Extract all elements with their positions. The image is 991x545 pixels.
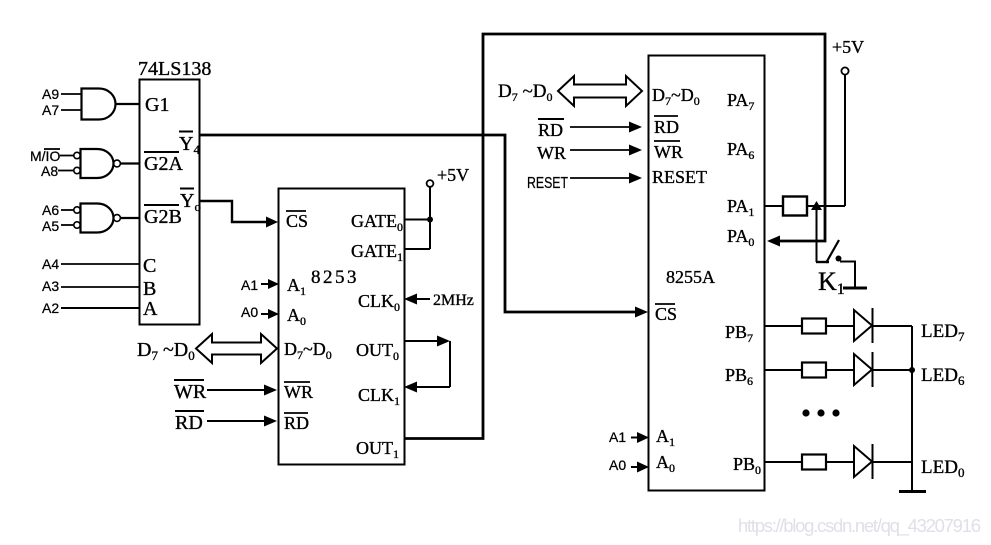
svg-text:GATE1: GATE1 bbox=[351, 241, 403, 264]
decoder U1 74LS138 box bbox=[140, 80, 200, 325]
wire diode LED6 to common rail bbox=[873, 369, 912, 371]
junction GATE0/+5V bbox=[427, 217, 433, 223]
junction arrow switch to PA1 net bbox=[811, 201, 822, 210]
pin label Y0 (active-low output) bbox=[180, 189, 201, 215]
svg-text:A8: A8 bbox=[41, 163, 58, 179]
svg-text:+5V: +5V bbox=[832, 37, 864, 57]
wire NAND output to G2B bbox=[120, 217, 139, 219]
wire PA1 to resistor bbox=[765, 205, 783, 207]
wire A5 to NAND bbox=[61, 224, 74, 226]
svg-text:74LS138: 74LS138 bbox=[138, 58, 211, 80]
svg-text:+5V: +5V bbox=[437, 165, 469, 185]
label RD (to 8255A, overbar) bbox=[538, 119, 564, 140]
svg-text:RESET: RESET bbox=[652, 167, 707, 187]
bus double arrow D7~D0 to 8253 bbox=[196, 334, 277, 363]
svg-text:8253: 8253 bbox=[311, 267, 359, 288]
wire resistor to +5V bbox=[807, 205, 845, 207]
label WR (to 8253, overbar) bbox=[174, 380, 207, 403]
svg-text:A5: A5 bbox=[42, 218, 59, 234]
wire resistor to diode LED6 bbox=[826, 369, 854, 371]
wire resistor to diode LED0 bbox=[826, 461, 854, 463]
wire A0 arrow into 8255A bbox=[631, 462, 649, 473]
wire OUT0 arrow to feedback vertical bbox=[405, 336, 450, 347]
pin label WR (8253, overbar) bbox=[284, 382, 313, 402]
wire +5V vertical to GATE1 bbox=[429, 187, 431, 249]
+5V terminal (PA1 pull-up) bbox=[841, 67, 848, 74]
wire A3 to B bbox=[61, 286, 139, 288]
wire switch vertical from PA1 node bbox=[816, 206, 818, 262]
ground (K1) bbox=[843, 287, 867, 290]
wire RESET arrow into 8255A bbox=[570, 173, 642, 184]
wire A0 arrow into 8253 bbox=[261, 309, 279, 319]
svg-text:A: A bbox=[143, 298, 158, 320]
diode LED7 bbox=[854, 308, 873, 343]
svg-text:2MHz: 2MHz bbox=[433, 292, 474, 309]
svg-text:RD: RD bbox=[538, 120, 563, 140]
label M/IO (IO overbar) bbox=[30, 148, 60, 164]
wire +5V vertical (PA1 pull-up) bbox=[844, 75, 846, 206]
svg-text:RESET: RESET bbox=[527, 175, 568, 192]
wire A1 arrow into 8255A bbox=[631, 432, 649, 443]
svg-text:RD: RD bbox=[284, 413, 309, 433]
svg-text:OUT0: OUT0 bbox=[356, 340, 399, 363]
svg-text:CLK1: CLK1 bbox=[358, 385, 400, 408]
svg-text:G1: G1 bbox=[145, 94, 169, 116]
wire net Y0 to 8253 CS (right, down, right with arrow) bbox=[200, 201, 278, 228]
wire M/IO to NAND bbox=[60, 155, 74, 157]
svg-text:A9: A9 bbox=[42, 86, 59, 102]
wire AND gate output to G1 bbox=[116, 103, 140, 105]
svg-text:D7 ~D0: D7 ~D0 bbox=[498, 81, 553, 104]
PPI U6 8255A box bbox=[649, 56, 765, 491]
svg-text:A4: A4 bbox=[42, 256, 59, 272]
svg-text:OUT1: OUT1 bbox=[356, 438, 399, 461]
switch K1 right contact dot bbox=[836, 256, 842, 262]
switch K1 left contact plate bbox=[816, 261, 829, 263]
AND gate U2 (inputs A9,A7 -> G1) bbox=[82, 89, 116, 120]
svg-text:G2A: G2A bbox=[144, 153, 183, 175]
wire diode LED0 to common rail bbox=[873, 461, 912, 463]
svg-text:M/IO: M/IO bbox=[30, 148, 60, 164]
svg-text:GATE0: GATE0 bbox=[351, 211, 403, 234]
wire GATE0 to +5V node bbox=[405, 219, 430, 221]
svg-text:WR: WR bbox=[537, 143, 566, 163]
svg-text:RD: RD bbox=[654, 117, 679, 137]
resistor R6 (LED6) bbox=[802, 363, 826, 378]
wire feedback arrow into CLK1 bbox=[404, 382, 450, 393]
label RD (to 8253, overbar) bbox=[175, 411, 204, 434]
svg-text:A1: A1 bbox=[241, 277, 258, 293]
svg-text:A3: A3 bbox=[42, 278, 59, 294]
wire WR arrow into 8253 bbox=[207, 385, 277, 396]
timer U5 8253 box bbox=[279, 189, 405, 465]
svg-text:B: B bbox=[143, 278, 156, 300]
pin label WR (8255A, overbar) bbox=[654, 141, 683, 162]
pin label CS (8253, overbar) bbox=[286, 211, 308, 231]
pin label RD (8253, overbar) bbox=[284, 413, 309, 433]
pin label G2A (active-low) bbox=[144, 152, 183, 175]
svg-text:C: C bbox=[143, 255, 156, 277]
resistor R0 (LED0) bbox=[802, 455, 826, 470]
wire PB6 to resistor bbox=[765, 369, 802, 371]
ground (LED rail) bbox=[899, 490, 926, 493]
wire WR arrow into 8255A bbox=[570, 145, 642, 156]
wire diode LED7 to common rail bbox=[873, 325, 912, 327]
wire switch to ground bbox=[840, 262, 855, 288]
wire A9 to AND gate bbox=[61, 93, 81, 95]
wire A6 to NAND bbox=[61, 209, 74, 211]
wire A2 to A bbox=[61, 307, 139, 309]
resistor R9 (PA1 pull-up) bbox=[783, 197, 807, 216]
ellipsis dots (PB5..PB1 rows omitted) bbox=[802, 409, 839, 416]
wire net OUT1 up and across to PA0 bbox=[405, 34, 825, 439]
wire A4 to C bbox=[61, 263, 139, 265]
diode LED0 bbox=[854, 444, 873, 479]
pin label RD (8255A, overbar) bbox=[654, 116, 679, 137]
wire A8 to NAND bbox=[58, 170, 74, 172]
svg-text:D7 ~D0: D7 ~D0 bbox=[137, 339, 195, 363]
wire RD arrow into 8253 bbox=[207, 416, 277, 427]
svg-text:https://blog.csdn.net/qq_43207: https://blog.csdn.net/qq_43207916 bbox=[738, 515, 981, 537]
wire A1 arrow into 8253 bbox=[261, 279, 279, 289]
wire NAND output to G2A bbox=[120, 162, 139, 164]
svg-text:A0: A0 bbox=[241, 304, 258, 320]
wire LED common rail vertical bbox=[911, 326, 913, 491]
svg-text:D7~D0: D7~D0 bbox=[652, 85, 700, 108]
svg-text:A2: A2 bbox=[42, 300, 59, 316]
svg-text:A7: A7 bbox=[42, 102, 59, 118]
junction LED6 rail bbox=[909, 367, 915, 373]
wire RD arrow into 8255A bbox=[570, 122, 642, 133]
svg-text:A6: A6 bbox=[42, 202, 59, 218]
pin label G2B (active-low) bbox=[144, 205, 182, 228]
wire PB0 to resistor bbox=[765, 461, 802, 463]
bus double arrow D7~D0 to 8255A bbox=[558, 76, 642, 106]
wire A7 to AND gate bbox=[61, 109, 81, 111]
svg-text:LED0: LED0 bbox=[921, 457, 964, 480]
svg-text:RD: RD bbox=[175, 412, 203, 434]
resistor R7 (LED7) bbox=[802, 319, 826, 334]
svg-text:WR: WR bbox=[174, 381, 207, 403]
svg-text:A0: A0 bbox=[609, 457, 626, 473]
+5V terminal (8253 gates) bbox=[427, 180, 434, 187]
svg-text:8255A: 8255A bbox=[666, 267, 715, 287]
NAND gate U4 (inputs A6,A5 -> G2B) bbox=[74, 204, 121, 233]
svg-text:CLK0: CLK0 bbox=[358, 291, 400, 314]
wire net Y4 to 8255A CS (right, down, right with arrow) bbox=[200, 135, 648, 318]
pin label CS (8255A, overbar) bbox=[655, 304, 677, 324]
svg-text:A1: A1 bbox=[609, 429, 626, 445]
svg-text:D7~D0: D7~D0 bbox=[284, 339, 332, 362]
wire PB7 to resistor bbox=[765, 325, 802, 327]
svg-text:WR: WR bbox=[284, 382, 313, 402]
svg-text:G2B: G2B bbox=[144, 206, 182, 228]
pin label Y4 (active-low output) bbox=[179, 132, 200, 158]
wire resistor to diode LED7 bbox=[826, 325, 854, 327]
wire feedback vertical OUT0->CLK1 bbox=[449, 341, 451, 387]
switch K1 blade bbox=[826, 240, 839, 263]
wire 2MHz clock arrow into CLK0 bbox=[404, 294, 430, 305]
svg-text:CS: CS bbox=[655, 304, 677, 324]
svg-text:CS: CS bbox=[286, 211, 308, 231]
svg-text:WR: WR bbox=[654, 142, 683, 162]
NAND gate U3 (inputs M/IO,A8 -> G2A) bbox=[74, 149, 121, 178]
wire GATE1 to +5V node bbox=[405, 248, 430, 250]
diode LED6 bbox=[854, 352, 873, 387]
